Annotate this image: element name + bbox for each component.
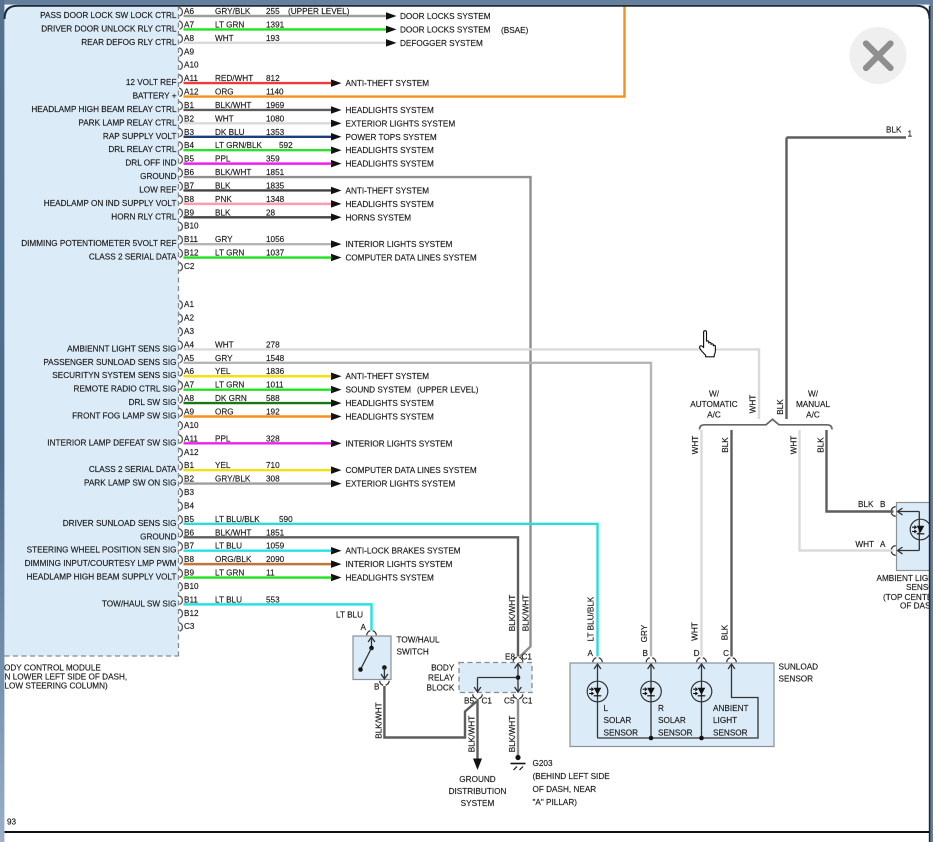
svg-text:DIMMING INPUT/COURTESY LMP PWM: DIMMING INPUT/COURTESY LMP PWM — [25, 559, 177, 568]
svg-text:2090: 2090 — [266, 555, 285, 564]
svg-text:BLK/WHT: BLK/WHT — [215, 168, 251, 177]
svg-text:(BELOW STEERING COLUMN): (BELOW STEERING COLUMN) — [0, 682, 108, 691]
svg-text:CLASS 2 SERIAL DATA: CLASS 2 SERIAL DATA — [89, 253, 177, 262]
svg-text:DIMMING POTENTIOMETER 5VOLT RE: DIMMING POTENTIOMETER 5VOLT REF — [21, 239, 176, 248]
svg-text:255: 255 — [266, 7, 280, 16]
svg-text:A12: A12 — [184, 88, 199, 97]
svg-text:1851: 1851 — [266, 168, 285, 177]
svg-text:DISTRIBUTION: DISTRIBUTION — [449, 787, 507, 796]
svg-text:B8: B8 — [184, 555, 194, 564]
svg-text:A/C: A/C — [806, 410, 820, 419]
svg-text:A10: A10 — [184, 61, 199, 70]
svg-text:GRY: GRY — [215, 354, 233, 363]
svg-text:LT BLU: LT BLU — [336, 611, 363, 620]
svg-text:1: 1 — [908, 130, 913, 139]
svg-text:YEL: YEL — [215, 367, 231, 376]
svg-text:W/: W/ — [808, 390, 819, 399]
svg-text:A11: A11 — [184, 434, 198, 443]
svg-text:GRY/BLK: GRY/BLK — [215, 475, 251, 484]
svg-text:INTERIOR LIGHTS SYSTEM: INTERIOR LIGHTS SYSTEM — [346, 560, 453, 569]
svg-text:BLK/WHT: BLK/WHT — [508, 716, 517, 752]
svg-text:AMBIENT LIGHT: AMBIENT LIGHT — [877, 574, 933, 583]
svg-text:DRL OFF IND: DRL OFF IND — [125, 159, 176, 168]
svg-text:(BSAE): (BSAE) — [501, 26, 529, 35]
svg-text:GROUND: GROUND — [140, 172, 176, 181]
svg-text:1140: 1140 — [266, 88, 284, 97]
svg-text:B: B — [880, 500, 886, 509]
svg-text:710: 710 — [266, 461, 280, 470]
svg-text:SENSOR: SENSOR — [779, 675, 814, 684]
svg-text:A6: A6 — [184, 7, 194, 16]
svg-text:BLK/WHT: BLK/WHT — [215, 101, 251, 110]
svg-text:DOOR LOCKS SYSTEM: DOOR LOCKS SYSTEM — [400, 25, 491, 34]
svg-text:HEADLIGHTS SYSTEM: HEADLIGHTS SYSTEM — [346, 160, 434, 169]
svg-text:HEADLIGHTS SYSTEM: HEADLIGHTS SYSTEM — [346, 574, 434, 583]
svg-text:HEADLAMP HIGH BEAM RELAY CTRL: HEADLAMP HIGH BEAM RELAY CTRL — [31, 105, 177, 114]
svg-text:328: 328 — [266, 434, 280, 443]
svg-text:SWITCH: SWITCH — [397, 648, 429, 657]
svg-text:B12: B12 — [184, 249, 199, 258]
svg-text:FRONT FOG LAMP SW SIG: FRONT FOG LAMP SW SIG — [72, 412, 176, 421]
svg-text:ORG: ORG — [215, 408, 234, 417]
svg-text:BLK: BLK — [721, 624, 730, 640]
svg-text:A4: A4 — [184, 340, 194, 349]
svg-text:A: A — [880, 540, 886, 549]
svg-text:OF DASH): OF DASH) — [900, 602, 933, 611]
svg-text:HORN RLY CTRL: HORN RLY CTRL — [111, 212, 177, 221]
svg-text:PNK: PNK — [215, 195, 232, 204]
svg-text:A7: A7 — [184, 20, 194, 29]
svg-text:1011: 1011 — [266, 381, 284, 390]
svg-text:RELAY: RELAY — [428, 674, 455, 683]
svg-text:ORG: ORG — [215, 88, 234, 97]
svg-text:WHT: WHT — [215, 340, 234, 349]
svg-text:OF DASH, NEAR: OF DASH, NEAR — [533, 785, 597, 794]
svg-text:HEADLIGHTS SYSTEM: HEADLIGHTS SYSTEM — [346, 106, 434, 115]
svg-text:1835: 1835 — [266, 181, 285, 190]
svg-text:BODY: BODY — [431, 664, 455, 673]
svg-text:ANTI-THEFT SYSTEM: ANTI-THEFT SYSTEM — [346, 186, 430, 195]
svg-text:B4: B4 — [184, 501, 194, 510]
svg-text:GROUND: GROUND — [140, 532, 176, 541]
svg-text:LT GRN/BLK: LT GRN/BLK — [215, 141, 263, 150]
svg-text:B: B — [374, 683, 380, 692]
svg-text:C2: C2 — [184, 262, 195, 271]
svg-text:(UPPER LEVEL): (UPPER LEVEL) — [417, 386, 479, 395]
svg-text:LT GRN: LT GRN — [215, 20, 244, 29]
svg-text:A9: A9 — [184, 47, 194, 56]
svg-text:A/C: A/C — [707, 410, 721, 419]
svg-text:1836: 1836 — [266, 367, 285, 376]
svg-text:A5: A5 — [184, 354, 194, 363]
svg-text:BATTERY +: BATTERY + — [133, 92, 177, 101]
svg-text:590: 590 — [279, 515, 293, 524]
svg-text:INTERIOR LAMP DEFEAT SW SIG: INTERIOR LAMP DEFEAT SW SIG — [47, 438, 176, 447]
svg-text:WHT: WHT — [215, 34, 234, 43]
svg-text:BLK/WHT: BLK/WHT — [374, 702, 383, 738]
svg-text:LT BLU: LT BLU — [215, 542, 242, 551]
svg-text:1851: 1851 — [266, 528, 285, 537]
svg-text:STEERING WHEEL POSITION SEN SI: STEERING WHEEL POSITION SEN SIG — [27, 546, 177, 555]
svg-text:WHT: WHT — [790, 436, 799, 455]
svg-text:LT GRN: LT GRN — [215, 569, 244, 578]
svg-text:BLK: BLK — [215, 181, 231, 190]
svg-text:INTERIOR LIGHTS SYSTEM: INTERIOR LIGHTS SYSTEM — [346, 439, 453, 448]
svg-text:A: A — [361, 623, 367, 632]
svg-text:SUNLOAD: SUNLOAD — [779, 663, 819, 672]
svg-text:RED/WHT: RED/WHT — [215, 74, 253, 83]
svg-text:GROUND: GROUND — [459, 775, 495, 784]
svg-text:A6: A6 — [184, 367, 194, 376]
svg-text:B: B — [643, 649, 649, 658]
svg-text:DRL SW SIG: DRL SW SIG — [129, 398, 177, 407]
svg-text:12 VOLT REF: 12 VOLT REF — [126, 78, 177, 87]
svg-text:HEADLIGHTS SYSTEM: HEADLIGHTS SYSTEM — [346, 200, 434, 209]
svg-text:HEADLAMP HIGH BEAM SUPPLY VOLT: HEADLAMP HIGH BEAM SUPPLY VOLT — [27, 573, 177, 582]
svg-text:PPL: PPL — [215, 434, 231, 443]
svg-text:B10: B10 — [184, 582, 199, 591]
svg-text:A: A — [588, 649, 594, 658]
svg-text:C1: C1 — [482, 697, 493, 706]
svg-text:HEADLIGHTS SYSTEM: HEADLIGHTS SYSTEM — [346, 146, 434, 155]
svg-text:BLK: BLK — [215, 208, 231, 217]
svg-text:1080: 1080 — [266, 114, 285, 123]
svg-text:PARK LAMP RELAY CTRL: PARK LAMP RELAY CTRL — [78, 118, 177, 127]
svg-text:GRY/BLK: GRY/BLK — [215, 7, 251, 16]
svg-text:CLASS 2 SERIAL DATA: CLASS 2 SERIAL DATA — [89, 465, 177, 474]
svg-text:DRL RELAY CTRL: DRL RELAY CTRL — [108, 145, 177, 154]
svg-text:BLK: BLK — [721, 437, 730, 453]
svg-text:LT GRN: LT GRN — [215, 381, 244, 390]
svg-text:B5: B5 — [184, 155, 194, 164]
svg-text:GRY: GRY — [640, 624, 649, 642]
svg-text:B6: B6 — [184, 528, 194, 537]
svg-text:B7: B7 — [184, 542, 194, 551]
svg-text:YEL: YEL — [215, 461, 231, 470]
svg-text:SYSTEM: SYSTEM — [461, 799, 495, 808]
svg-text:WHT: WHT — [749, 395, 758, 414]
svg-text:A1: A1 — [184, 300, 194, 309]
svg-text:308: 308 — [266, 475, 280, 484]
svg-text:278: 278 — [266, 340, 280, 349]
svg-text:1059: 1059 — [266, 542, 285, 551]
svg-text:C3: C3 — [184, 622, 195, 631]
svg-text:1391: 1391 — [266, 20, 285, 29]
svg-text:B12: B12 — [184, 609, 199, 618]
svg-text:B2: B2 — [184, 114, 194, 123]
svg-text:WHT: WHT — [691, 622, 700, 641]
svg-text:DK GRN: DK GRN — [215, 394, 247, 403]
svg-text:BLK: BLK — [858, 500, 874, 509]
svg-text:W/: W/ — [709, 390, 720, 399]
svg-text:11: 11 — [266, 569, 275, 578]
svg-text:A9: A9 — [184, 408, 194, 417]
svg-text:1969: 1969 — [266, 101, 285, 110]
svg-text:DK BLU: DK BLU — [215, 128, 245, 137]
svg-text:WHT: WHT — [215, 114, 234, 123]
svg-text:812: 812 — [266, 74, 280, 83]
svg-text:28: 28 — [266, 208, 276, 217]
svg-text:192: 192 — [266, 408, 280, 417]
svg-text:1548: 1548 — [266, 354, 285, 363]
svg-text:ANBIENT: ANBIENT — [713, 704, 749, 713]
svg-text:SECURITYN SYSTEM SENS SIG: SECURITYN SYSTEM SENS SIG — [52, 371, 176, 380]
svg-text:(BEHIND LEFT SIDE: (BEHIND LEFT SIDE — [533, 772, 611, 781]
svg-text:BLK/WHT: BLK/WHT — [522, 595, 531, 631]
svg-text:BODY CONTROL MODULE: BODY CONTROL MODULE — [0, 664, 101, 673]
svg-text:INTERIOR LIGHTS SYSTEM: INTERIOR LIGHTS SYSTEM — [346, 240, 453, 249]
svg-text:ANTI-LOCK BRAKES SYSTEM: ANTI-LOCK BRAKES SYSTEM — [346, 547, 461, 556]
svg-text:B11: B11 — [184, 595, 198, 604]
svg-text:COMPUTER DATA LINES SYSTEM: COMPUTER DATA LINES SYSTEM — [346, 254, 477, 263]
svg-text:B3: B3 — [184, 488, 194, 497]
svg-text:B10: B10 — [184, 222, 199, 231]
svg-text:B11: B11 — [184, 235, 198, 244]
svg-text:BLK: BLK — [776, 399, 785, 415]
svg-text:A2: A2 — [184, 314, 194, 323]
svg-text:1056: 1056 — [266, 235, 285, 244]
svg-text:BLK: BLK — [886, 126, 902, 135]
svg-text:B4: B4 — [184, 141, 194, 150]
svg-text:R: R — [658, 704, 664, 713]
svg-text:C5: C5 — [504, 697, 515, 706]
svg-text:A8: A8 — [184, 394, 194, 403]
svg-text:1348: 1348 — [266, 195, 285, 204]
svg-text:B3: B3 — [184, 128, 194, 137]
svg-text:A8: A8 — [184, 34, 194, 43]
svg-text:AUTOMATIC: AUTOMATIC — [690, 400, 738, 409]
svg-text:DRIVER DOOR UNLOCK RLY CTRL: DRIVER DOOR UNLOCK RLY CTRL — [41, 24, 177, 33]
svg-text:(ON LOWER LEFT SIDE OF DASH,: (ON LOWER LEFT SIDE OF DASH, — [0, 673, 127, 682]
svg-text:LOW REF: LOW REF — [139, 185, 176, 194]
svg-text:SENSOR: SENSOR — [658, 728, 693, 737]
svg-text:SOUND SYSTEM: SOUND SYSTEM — [346, 386, 412, 395]
svg-text:ANTI-THEFT SYSTEM: ANTI-THEFT SYSTEM — [346, 79, 430, 88]
svg-text:GRY: GRY — [215, 235, 233, 244]
svg-text:D: D — [694, 649, 700, 658]
svg-text:SOLAR: SOLAR — [604, 716, 632, 725]
svg-text:B9: B9 — [184, 208, 194, 217]
svg-text:PARK LAMP SW ON SIG: PARK LAMP SW ON SIG — [84, 479, 177, 488]
svg-text:B7: B7 — [184, 181, 194, 190]
svg-text:A11: A11 — [184, 74, 198, 83]
svg-text:1353: 1353 — [266, 128, 285, 137]
svg-text:EXTERIOR LIGHTS SYSTEM: EXTERIOR LIGHTS SYSTEM — [346, 480, 456, 489]
svg-text:ANTI-THEFT SYSTEM: ANTI-THEFT SYSTEM — [346, 372, 430, 381]
svg-text:DEFOGGER SYSTEM: DEFOGGER SYSTEM — [400, 39, 483, 48]
svg-text:PPL: PPL — [215, 155, 231, 164]
svg-text:LT BLU/BLK: LT BLU/BLK — [215, 515, 260, 524]
svg-text:588: 588 — [266, 394, 280, 403]
svg-text:BLOCK: BLOCK — [427, 684, 455, 693]
svg-text:SENSOR: SENSOR — [713, 728, 748, 737]
svg-text:TOW/HAUL SW SIG: TOW/HAUL SW SIG — [102, 599, 177, 608]
svg-text:G203: G203 — [533, 759, 553, 768]
svg-text:LT BLU: LT BLU — [215, 595, 242, 604]
svg-text:B6: B6 — [184, 168, 194, 177]
svg-text:A3: A3 — [184, 327, 194, 336]
svg-text:PASS DOOR LOCK SW LOCK CTRL: PASS DOOR LOCK SW LOCK CTRL — [40, 11, 177, 20]
svg-text:C: C — [723, 649, 729, 658]
svg-text:LT BLU/BLK: LT BLU/BLK — [587, 596, 596, 641]
svg-text:HEADLIGHTS SYSTEM: HEADLIGHTS SYSTEM — [346, 399, 434, 408]
svg-text:EXTERIOR LIGHTS SYSTEM: EXTERIOR LIGHTS SYSTEM — [346, 119, 456, 128]
svg-text:B9: B9 — [184, 569, 194, 578]
svg-text:193: 193 — [266, 34, 280, 43]
svg-text:HEADLAMP ON IND SUPPLY VOLT: HEADLAMP ON IND SUPPLY VOLT — [44, 199, 177, 208]
svg-text:A7: A7 — [184, 381, 194, 390]
svg-text:"A" PILLAR): "A" PILLAR) — [533, 798, 578, 807]
svg-text:BLK/WHT: BLK/WHT — [215, 528, 251, 537]
svg-text:REAR DEFOG RLY CTRL: REAR DEFOG RLY CTRL — [81, 38, 177, 47]
svg-text:WHT: WHT — [691, 436, 700, 455]
svg-text:SENSOR: SENSOR — [604, 728, 639, 737]
svg-text:B2: B2 — [184, 475, 194, 484]
svg-text:93: 93 — [7, 818, 17, 827]
svg-text:MANUAL: MANUAL — [796, 400, 831, 409]
svg-text:A10: A10 — [184, 421, 199, 430]
svg-text:ORG/BLK: ORG/BLK — [215, 555, 252, 564]
svg-text:C1: C1 — [522, 697, 533, 706]
svg-text:592: 592 — [279, 141, 293, 150]
svg-text:COMPUTER DATA LINES SYSTEM: COMPUTER DATA LINES SYSTEM — [346, 466, 477, 475]
svg-text:A12: A12 — [184, 448, 199, 457]
svg-text:1037: 1037 — [266, 249, 285, 258]
svg-text:RAP SUPPLY VOLT: RAP SUPPLY VOLT — [103, 132, 177, 141]
svg-text:B8: B8 — [184, 195, 194, 204]
svg-text:WHT: WHT — [855, 540, 874, 549]
svg-text:SOLAR: SOLAR — [658, 716, 686, 725]
svg-text:L: L — [604, 704, 609, 713]
svg-text:553: 553 — [266, 595, 280, 604]
svg-text:B1: B1 — [184, 101, 194, 110]
svg-text:B1: B1 — [184, 461, 194, 470]
svg-text:POWER TOPS SYSTEM: POWER TOPS SYSTEM — [346, 133, 437, 142]
svg-text:HORNS SYSTEM: HORNS SYSTEM — [346, 213, 412, 222]
svg-text:TOW/HAUL: TOW/HAUL — [397, 635, 441, 644]
svg-text:DRIVER SUNLOAD SENS SIG: DRIVER SUNLOAD SENS SIG — [63, 519, 177, 528]
svg-text:(UPPER LEVEL): (UPPER LEVEL) — [288, 7, 350, 16]
svg-text:359: 359 — [266, 155, 280, 164]
svg-text:DOOR LOCKS SYSTEM: DOOR LOCKS SYSTEM — [400, 12, 491, 21]
svg-text:LT GRN: LT GRN — [215, 249, 244, 258]
svg-text:LIGHT: LIGHT — [713, 716, 737, 725]
svg-text:PASSENGER SUNLOAD SENS SIG: PASSENGER SUNLOAD SENS SIG — [43, 358, 176, 367]
svg-text:BLK/WHT: BLK/WHT — [468, 716, 477, 752]
svg-text:REMOTE RADIO CTRL SIG: REMOTE RADIO CTRL SIG — [74, 385, 177, 394]
svg-text:B5: B5 — [184, 515, 194, 524]
svg-text:BLK/WHT: BLK/WHT — [508, 595, 517, 631]
svg-text:HEADLIGHTS SYSTEM: HEADLIGHTS SYSTEM — [346, 413, 434, 422]
svg-text:AMBIENNT LIGHT SENS SIG: AMBIENNT LIGHT SENS SIG — [67, 344, 176, 353]
svg-text:B5: B5 — [464, 697, 474, 706]
svg-text:BLK: BLK — [817, 437, 826, 453]
